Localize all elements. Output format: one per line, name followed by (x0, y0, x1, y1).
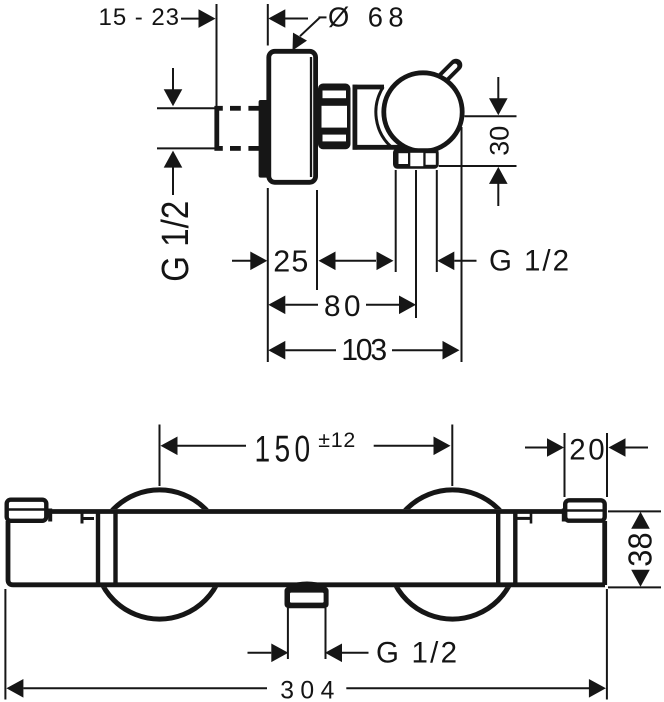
bottom outlet boss arc (288, 583, 326, 586)
svg-text:304: 304 (280, 677, 334, 702)
extension line: escutcheon front face (shared by 15-23 / O68) (267, 4, 269, 46)
handle lever stub (443, 65, 456, 78)
svg-text:150: 150 (255, 429, 315, 471)
extension line: outlet right (436, 170, 438, 272)
extension lines: outlet G1/2 (288, 608, 326, 659)
right escutcheon circle (388, 490, 517, 619)
left end cap (7, 500, 51, 522)
escutcheon disc (O68, side view) (269, 51, 316, 182)
extension line: 304 right (606, 589, 608, 700)
dimension G1/2 bottom (248, 637, 458, 670)
svg-text:G 1/2: G 1/2 (155, 201, 197, 282)
left joint tick (82, 514, 94, 524)
thermostat handle (circle) (384, 73, 462, 151)
svg-text:30: 30 (485, 126, 515, 156)
left valve housing lines (98, 512, 116, 585)
extension line: 304 left (4, 589, 6, 700)
extension line: handle right edge (461, 127, 463, 362)
dimension 30 (vertical) (485, 77, 515, 206)
right joint tick (517, 514, 533, 524)
svg-text:G 1/2: G 1/2 (489, 245, 569, 278)
svg-text:20: 20 (569, 434, 607, 467)
extension lines: pipe nipple top/bottom (G1/2 left) (157, 108, 218, 148)
svg-text:±12: ±12 (318, 428, 355, 452)
extension line: escutcheon front face lower (267, 188, 269, 362)
extension line: wall face (15-23 left) (216, 4, 218, 106)
bottom outlet flange (285, 587, 329, 608)
dimension 80 (268, 290, 416, 323)
sleeve bar on escutcheon (259, 100, 269, 178)
dimension 103 (268, 334, 459, 367)
extension line: outlet left (395, 170, 397, 272)
dimension G1/2 left (vertical arrows + rotated label) (155, 68, 197, 282)
extension line: escutcheon rear face lower (316, 190, 318, 290)
dimension G1/2 right (377, 245, 570, 278)
left escutcheon circle (95, 490, 224, 619)
svg-text:25: 25 (273, 244, 308, 278)
svg-text:15 - 23: 15 - 23 (99, 4, 180, 31)
dimension 25 (232, 244, 376, 278)
dimension 150 +/-12 (161, 428, 451, 471)
svg-text:G 1/2: G 1/2 (376, 637, 457, 670)
dimension 304 (6, 677, 606, 702)
ribbed union nut (318, 84, 351, 150)
dimension 15-23 (99, 4, 216, 31)
right end cap (564, 500, 605, 521)
extension lines: 20 dimension (565, 433, 608, 497)
valve body (353, 85, 439, 150)
svg-text:103: 103 (341, 334, 387, 367)
pipe nipple (threaded wall connection) (217, 104, 262, 153)
mixer bar body (8, 509, 605, 587)
extension lines: 38 dimension (608, 511, 661, 587)
neck arc of handle (376, 87, 392, 147)
extension line: right escutcheon center (451, 425, 453, 487)
extension line: outlet center (415, 170, 417, 318)
dimension 38 (vertical) (622, 512, 659, 587)
right valve housing lines (498, 512, 515, 585)
outlet union nut (bottom port) (393, 148, 439, 169)
dimension O68 with leader arrow (268, 2, 403, 51)
svg-text:38: 38 (622, 532, 659, 566)
dimension 20 (525, 434, 648, 467)
extension lines: 30 dimension (439, 116, 517, 166)
extension line: left escutcheon center (159, 425, 161, 487)
